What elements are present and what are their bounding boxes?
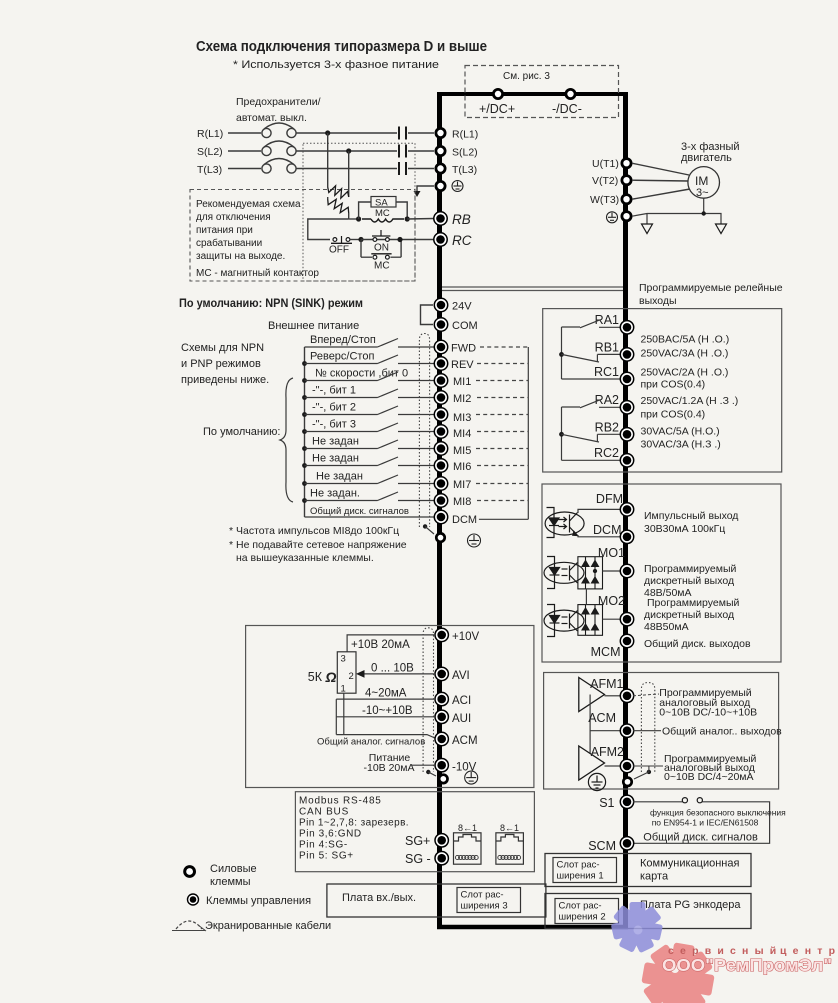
terminal T(L3): [436, 164, 445, 173]
wire resistors to bottom: [327, 197, 329, 199]
fuse S: [262, 146, 271, 155]
terminal MI7: [434, 477, 447, 490]
node ON right: [397, 237, 402, 242]
wire S to contact: [296, 150, 397, 152]
digital input common rail: [304, 347, 306, 517]
svg-text:3: 3: [341, 654, 346, 665]
svg-text:* Используется 3-х фазное пита: * Используется 3-х фазное питание: [233, 59, 439, 71]
svg-text:ACM: ACM: [588, 711, 616, 725]
terminal RA2: [620, 401, 633, 414]
terminal AFM2: [620, 759, 633, 772]
svg-text:По умолчанию:: По умолчанию:: [203, 426, 280, 438]
svg-text:* Частота импульсов MI8до 10: * Частота импульсов MI8до 100кГц: [229, 525, 399, 537]
terminal RC1: [620, 372, 633, 385]
wire R input: [228, 132, 261, 134]
DC terminals dashed box: [465, 66, 619, 118]
MC contact T: [398, 162, 400, 175]
svg-text:автомат. выкл.: автомат. выкл.: [236, 112, 307, 124]
analog common rail: [335, 699, 337, 735]
relay1 common rail: [561, 327, 563, 379]
MCM rail: [585, 589, 587, 605]
node SA left: [356, 216, 361, 221]
fuse T: [262, 164, 271, 173]
svg-text:SG -: SG -: [405, 852, 431, 866]
svg-text:Pin 4:SG-: Pin 4:SG-: [299, 840, 348, 851]
svg-text:8←1: 8←1: [500, 823, 519, 833]
svg-text:4~20мА: 4~20мА: [365, 688, 407, 700]
wire AVI with wiper arrow: [362, 673, 434, 675]
svg-text:срабатывании: срабатывании: [196, 237, 262, 249]
svg-text:Не задан: Не задан: [316, 471, 363, 483]
terminal AUI: [435, 710, 448, 723]
wire AFM1: [605, 695, 621, 697]
slot2 outer box: [545, 894, 751, 929]
svg-text:Программируемый: Программируемый: [644, 563, 736, 575]
svg-text:клеммы: клеммы: [210, 876, 251, 888]
slot2 inner box: [555, 899, 619, 924]
legend power terminal: [185, 867, 195, 877]
svg-text:CAN BUS: CAN BUS: [299, 807, 349, 818]
svg-text:W(T3): W(T3): [590, 194, 619, 206]
terminal SG+: [435, 834, 448, 847]
svg-text:выходы: выходы: [639, 295, 677, 307]
svg-text:-10В 20мА: -10В 20мА: [364, 762, 415, 774]
svg-text:двигатель: двигатель: [681, 152, 732, 164]
legend shielded cable: [176, 921, 202, 929]
analog inputs box: [246, 626, 534, 788]
svg-text:Не задан: Не задан: [312, 453, 359, 465]
wire bottom link: [437, 925, 628, 930]
svg-text:-/DC-: -/DC-: [552, 102, 582, 116]
svg-text:Экранированные кабели: Экранированные кабели: [205, 920, 331, 932]
earth symbol input: [452, 181, 463, 192]
terminal DCM2: [620, 530, 633, 543]
wire DFM: [578, 509, 620, 513]
wire ACM: [336, 735, 435, 738]
terminal RB: [434, 212, 447, 225]
svg-text:DCM: DCM: [452, 514, 477, 526]
wire AFM2 to node: [633, 765, 663, 767]
svg-text:карта: карта: [640, 871, 669, 883]
fuse R: [262, 128, 271, 137]
svg-text:МС: МС: [375, 208, 390, 219]
opto MO2: [544, 605, 584, 637]
terminal -10V: [435, 759, 448, 772]
earth symbol analog: [465, 771, 478, 784]
wire AUI: [336, 716, 434, 718]
svg-text:ON: ON: [374, 243, 389, 254]
svg-text:R(L1): R(L1): [452, 129, 478, 141]
terminal RC2: [620, 454, 633, 467]
svg-text:+/DC+: +/DC+: [479, 102, 515, 116]
svg-text:на вышеуказанные клеммы.: на вышеуказанные клеммы.: [236, 552, 374, 564]
wire motor to ground: [703, 198, 705, 213]
terminal RB1: [620, 348, 633, 361]
svg-text:при COS(0.4): при COS(0.4): [641, 379, 706, 391]
svg-text:при COS(0.4): при COS(0.4): [641, 409, 706, 421]
wire ACI: [336, 698, 434, 700]
svg-text:MI2: MI2: [453, 393, 471, 405]
potentiometer 5K: [337, 652, 356, 693]
wire T to contact: [296, 168, 397, 170]
wire OFF to ON node: [350, 239, 361, 241]
terminal MI4: [434, 425, 447, 438]
svg-text:Общий диск. сигналов: Общий диск. сигналов: [310, 506, 409, 517]
svg-text:ширения 2: ширения 2: [559, 912, 606, 923]
svg-text:Pin 5: SG+: Pin 5: SG+: [299, 851, 354, 862]
svg-text:Не задан: Не задан: [312, 436, 359, 448]
svg-text:T(L3): T(L3): [452, 164, 477, 176]
svg-text:-"-, бит 3: -"-, бит 3: [312, 419, 356, 431]
relay outputs box: [543, 309, 782, 472]
wire AFM1 dash to desc: [633, 694, 659, 696]
svg-text:функция безопасного выключения: функция безопасного выключения: [650, 808, 786, 818]
terminal SCM: [620, 837, 633, 850]
svg-text:Программируемые релейные: Программируемые релейные: [639, 282, 783, 294]
resistor lower: [328, 199, 349, 213]
terminal RA1: [620, 321, 633, 334]
wire from S junction down: [348, 151, 350, 197]
wire right main bus: [623, 94, 628, 928]
terminal MCM: [620, 634, 633, 647]
dashed refs FWD..MI8: [476, 347, 528, 501]
terminal ACM2: [435, 732, 448, 745]
ground arrow 1: [646, 214, 648, 225]
svg-text:30VAC/5A (Н.О.): 30VAC/5A (Н.О.): [641, 426, 720, 438]
terminal ACM: [620, 724, 633, 737]
svg-text:SCM: SCM: [588, 839, 616, 853]
svg-text:0~10В DC/4~20мА: 0~10В DC/4~20мА: [664, 771, 754, 783]
svg-text:Вперед/Стоп: Вперед/Стоп: [310, 334, 376, 346]
DCM reference rail: [527, 347, 529, 519]
svg-text:Слот рас-: Слот рас-: [559, 901, 602, 912]
wire T input: [228, 168, 261, 170]
opto DFM: [545, 508, 584, 538]
terminal MI2: [434, 391, 447, 404]
svg-text:S(L2): S(L2): [452, 147, 478, 159]
terminal MI5: [434, 442, 447, 455]
svg-text:Pin 3,6:GND: Pin 3,6:GND: [299, 829, 362, 840]
svg-text:защиты на выходе.: защиты на выходе.: [196, 251, 285, 262]
svg-text:AUI: AUI: [452, 713, 471, 725]
svg-text:MI1: MI1: [453, 376, 471, 388]
terminal PE motor: [622, 212, 631, 221]
chassis separator double line: [442, 286, 623, 288]
svg-text:REV: REV: [451, 359, 474, 371]
slot1 inner box: [553, 858, 617, 883]
wire AFM2: [605, 765, 621, 767]
svg-text:Силовые: Силовые: [210, 863, 257, 875]
svg-text:Предохранители/: Предохранители/: [236, 96, 321, 108]
svg-text:дискретный выход: дискретный выход: [644, 609, 734, 621]
shield loop AFM: [641, 683, 654, 773]
shield loop analog: [423, 628, 433, 772]
svg-text:1: 1: [341, 684, 346, 695]
wire top DC link: [437, 92, 628, 96]
S1 wire loop: [633, 801, 683, 803]
wire left main bus: [437, 94, 442, 928]
MC inner dotted box: [303, 143, 415, 281]
wire S to terminal: [408, 150, 434, 152]
svg-text:Программируемый: Программируемый: [647, 597, 739, 609]
terminal ACI: [435, 692, 448, 705]
svg-text:RC2: RC2: [594, 446, 619, 460]
svg-text:Общий диск. выходов: Общий диск. выходов: [644, 638, 751, 650]
svg-text:Общий аналог.. выходов: Общий аналог.. выходов: [662, 726, 782, 738]
svg-text:По умолчанию: NPN (SINK) режим: По умолчанию: NPN (SINK) режим: [179, 296, 363, 310]
slot3 inner box: [457, 888, 521, 913]
wire pot pin1: [343, 693, 345, 734]
terminal PE input: [436, 181, 445, 190]
svg-text:Внешнее питание: Внешнее питание: [268, 320, 359, 332]
wire R to contact: [296, 132, 397, 134]
wire R to terminal: [408, 132, 434, 134]
wire RB row to SA node: [349, 218, 359, 220]
svg-text:RB: RB: [452, 212, 471, 227]
svg-text:DCM: DCM: [593, 523, 621, 537]
wire MO2: [603, 618, 621, 620]
terminal shield analog: [439, 775, 447, 783]
svg-text:3~: 3~: [696, 187, 709, 199]
MC coil: [362, 219, 404, 222]
svg-text:MI7: MI7: [453, 479, 471, 491]
terminal REV: [434, 357, 447, 370]
safety switch: [682, 798, 687, 803]
svg-text:См. рис. 3: См. рис. 3: [503, 71, 550, 82]
terminal MO1: [620, 564, 633, 577]
svg-text:SG+: SG+: [405, 834, 430, 848]
svg-text:* Не подавайте сетевое напряже: * Не подавайте сетевое напряжение: [229, 539, 407, 551]
terminal SG-: [435, 852, 448, 865]
ACM rail: [590, 695, 620, 731]
relay2 common rail: [561, 407, 563, 460]
wire to RB terminal: [407, 218, 434, 221]
svg-text:ACI: ACI: [452, 695, 471, 707]
svg-text:RB2: RB2: [595, 421, 619, 435]
terminal MO2: [620, 613, 633, 626]
ground arrow 2: [716, 224, 727, 234]
watermark blue gear: [611, 902, 663, 953]
terminal COM: [434, 318, 447, 331]
svg-text:Не задан.: Не задан.: [310, 488, 360, 500]
terminal DFM: [620, 503, 633, 516]
node shield AFM: [647, 770, 651, 774]
ON button parallel block: [361, 239, 434, 241]
svg-text:Схемы для NPN: Схемы для NPN: [181, 342, 264, 354]
motor IM: [688, 167, 720, 199]
wire DCM2: [578, 535, 620, 537]
wire S input: [228, 150, 261, 152]
amplifier AFM1: [579, 678, 605, 712]
terminal -/DC-: [566, 89, 575, 98]
svg-text:Общий аналог. сигналов: Общий аналог. сигналов: [317, 737, 425, 748]
terminal AFM1: [620, 689, 633, 702]
svg-text:MI3: MI3: [453, 412, 471, 424]
svg-text:питания при: питания при: [196, 225, 253, 236]
node shield digital: [423, 524, 427, 528]
discrete outputs box: [542, 484, 781, 662]
earth symbol motor side: [607, 212, 618, 223]
wire PE stub with arrow: [417, 186, 434, 191]
svg-text:30В30мА 100кГц: 30В30мА 100кГц: [644, 523, 725, 535]
MC recommendation dashed box: [190, 190, 415, 282]
terminal MI6: [434, 459, 447, 472]
svg-text:-"-, бит 2: -"-, бит 2: [312, 402, 356, 414]
svg-text:ширения 1: ширения 1: [557, 871, 604, 882]
svg-text:RC1: RC1: [594, 365, 619, 379]
SA bypass branch: [359, 202, 371, 219]
svg-text:30VAC/3A (Н.З .): 30VAC/3A (Н.З .): [641, 439, 721, 451]
svg-text:MI6: MI6: [453, 461, 471, 473]
modbus box: [295, 792, 534, 872]
shield loop digital: [419, 334, 429, 528]
svg-text:0~10В DC/-10~+10В: 0~10В DC/-10~+10В: [659, 707, 757, 719]
svg-text:AFM2: AFM2: [591, 745, 624, 759]
MC contact R: [398, 127, 400, 140]
ON contact symbol: [373, 238, 377, 242]
terminal MI3: [434, 408, 447, 421]
svg-text:MI8: MI8: [453, 496, 471, 508]
svg-text:IM: IM: [695, 174, 708, 188]
svg-text:МС: МС: [374, 261, 390, 272]
terminal RB2: [620, 428, 633, 441]
resistor upper: [328, 186, 349, 198]
opto MO1: [544, 557, 584, 589]
OFF button: [333, 238, 337, 242]
node S junction: [346, 148, 351, 153]
svg-text:DFM: DFM: [596, 492, 623, 506]
svg-text:ACM: ACM: [452, 735, 478, 747]
terminal shield AFM: [623, 778, 631, 786]
terminal MI1: [434, 374, 447, 387]
svg-text:Общий диск. сигналов: Общий диск. сигналов: [643, 832, 758, 844]
terminal +10V: [435, 628, 448, 641]
amplifier AFM2: [579, 746, 605, 780]
svg-text:-10~+10В: -10~+10В: [362, 705, 413, 717]
wire ACM desc: [633, 730, 661, 732]
svg-text:Modbus RS-485: Modbus RS-485: [299, 796, 382, 807]
svg-text:250ВAC/5A (Н .О.): 250ВAC/5A (Н .О.): [641, 334, 730, 346]
svg-text:Коммуникационная: Коммуникационная: [640, 858, 739, 870]
svg-text:ООО"РемПромЭл": ООО"РемПромЭл": [662, 955, 832, 975]
svg-text:R(L1): R(L1): [197, 128, 223, 140]
svg-text:AFM1: AFM1: [590, 677, 623, 691]
wire RB row left: [308, 219, 349, 240]
svg-text:5К: 5К: [308, 670, 323, 684]
node shield analog: [426, 770, 430, 774]
SA box: [371, 197, 396, 208]
svg-text:+10V: +10V: [452, 631, 480, 643]
earth symbol digital: [468, 534, 481, 547]
svg-text:250VAC/1.2A (Н .З .): 250VAC/1.2A (Н .З .): [641, 395, 739, 407]
svg-text:Импульсный выход: Импульсный выход: [644, 510, 738, 522]
analog outputs box: [544, 673, 779, 790]
svg-text:и PNP режимов: и PNP режимов: [181, 358, 261, 370]
node R junction: [325, 130, 330, 135]
MC contact S: [398, 145, 400, 158]
svg-text:Ω: Ω: [325, 669, 337, 685]
svg-text:OFF: OFF: [329, 245, 349, 256]
node SA right: [405, 216, 410, 221]
svg-text:Плата вх./вых.: Плата вх./вых.: [342, 892, 416, 904]
terminal FWD: [434, 340, 447, 353]
svg-text:8←1: 8←1: [458, 823, 477, 833]
svg-text:Плата PG энкодера: Плата PG энкодера: [640, 899, 741, 911]
svg-text:AVI: AVI: [452, 670, 470, 682]
terminal RC: [434, 233, 447, 246]
svg-text:-"-, бит 1: -"-, бит 1: [312, 385, 356, 397]
terminal 24V: [434, 298, 447, 311]
wire from R junction down: [327, 133, 329, 187]
MC aux contact: [361, 256, 372, 258]
svg-text:FWD: FWD: [451, 343, 476, 355]
svg-text:приведены ниже.: приведены ниже.: [181, 374, 269, 386]
terminal R(L1): [436, 128, 445, 137]
svg-text:ширения 3: ширения 3: [461, 901, 508, 912]
earth circle AFM: [588, 773, 605, 790]
svg-text:SA: SA: [375, 198, 388, 209]
svg-text:Реверс/Стоп: Реверс/Стоп: [310, 351, 374, 363]
svg-text:2: 2: [349, 671, 354, 682]
svg-text:МС - магнитный контактор: МС - магнитный контактор: [196, 268, 319, 279]
svg-text:RC: RC: [452, 233, 472, 248]
svg-text:Слот рас-: Слот рас-: [557, 860, 600, 871]
svg-text:+10В 20мА: +10В 20мА: [351, 639, 410, 651]
diode bridge MO2: [578, 605, 603, 636]
wire PE motor: [632, 214, 721, 225]
svg-text:Рекомендуемая схема: Рекомендуемая схема: [196, 199, 301, 210]
terminal DCM: [434, 510, 447, 523]
svg-text:V(T2): V(T2): [592, 175, 618, 187]
svg-text:U(T1): U(T1): [592, 158, 619, 170]
watermark red gear: [641, 942, 714, 1003]
terminal S(L2): [436, 146, 445, 155]
wire MO1: [603, 570, 621, 572]
svg-text:T(L3): T(L3): [197, 164, 222, 176]
svg-text:MCM: MCM: [591, 645, 621, 659]
wire -10V: [412, 764, 434, 766]
slot1 outer box: [545, 854, 751, 887]
svg-text:для отключения: для отключения: [196, 212, 271, 223]
svg-text:Клеммы управления: Клеммы управления: [206, 895, 311, 907]
external power bracket: [421, 305, 434, 325]
RJ45 jack 1: [454, 833, 482, 864]
wire +10V: [347, 635, 434, 652]
terminal +/DC+: [493, 89, 502, 98]
terminal MI8: [434, 494, 447, 507]
svg-text:MI4: MI4: [453, 428, 471, 440]
terminal shield digital: [436, 533, 444, 541]
default brace: [280, 378, 293, 502]
svg-text:RB1: RB1: [595, 341, 619, 355]
node ON left: [358, 237, 363, 242]
svg-text:COM: COM: [452, 320, 478, 332]
svg-text:дискретный выход: дискретный выход: [644, 575, 734, 587]
svg-text:Pin 1~2,7,8: зарезерв.: Pin 1~2,7,8: зарезерв.: [299, 818, 409, 829]
terminal AVI: [435, 667, 448, 680]
svg-text:24V: 24V: [452, 301, 472, 313]
svg-text:250VAC/3A (Н .О.): 250VAC/3A (Н .О.): [641, 348, 729, 360]
RJ45 jack 2: [496, 833, 524, 864]
svg-text:Схема подключения типоразмера: Схема подключения типоразмера D и выше: [196, 39, 487, 55]
wire T to terminal: [408, 168, 434, 170]
terminal S1: [620, 795, 633, 808]
svg-text:S1: S1: [599, 796, 614, 810]
svg-text:250VAC/2A (Н .О.): 250VAC/2A (Н .О.): [641, 367, 729, 379]
svg-text:0 ... 10В: 0 ... 10В: [371, 663, 414, 675]
svg-text:MI5: MI5: [453, 445, 471, 457]
svg-text:48В50мА: 48В50мА: [644, 621, 689, 633]
